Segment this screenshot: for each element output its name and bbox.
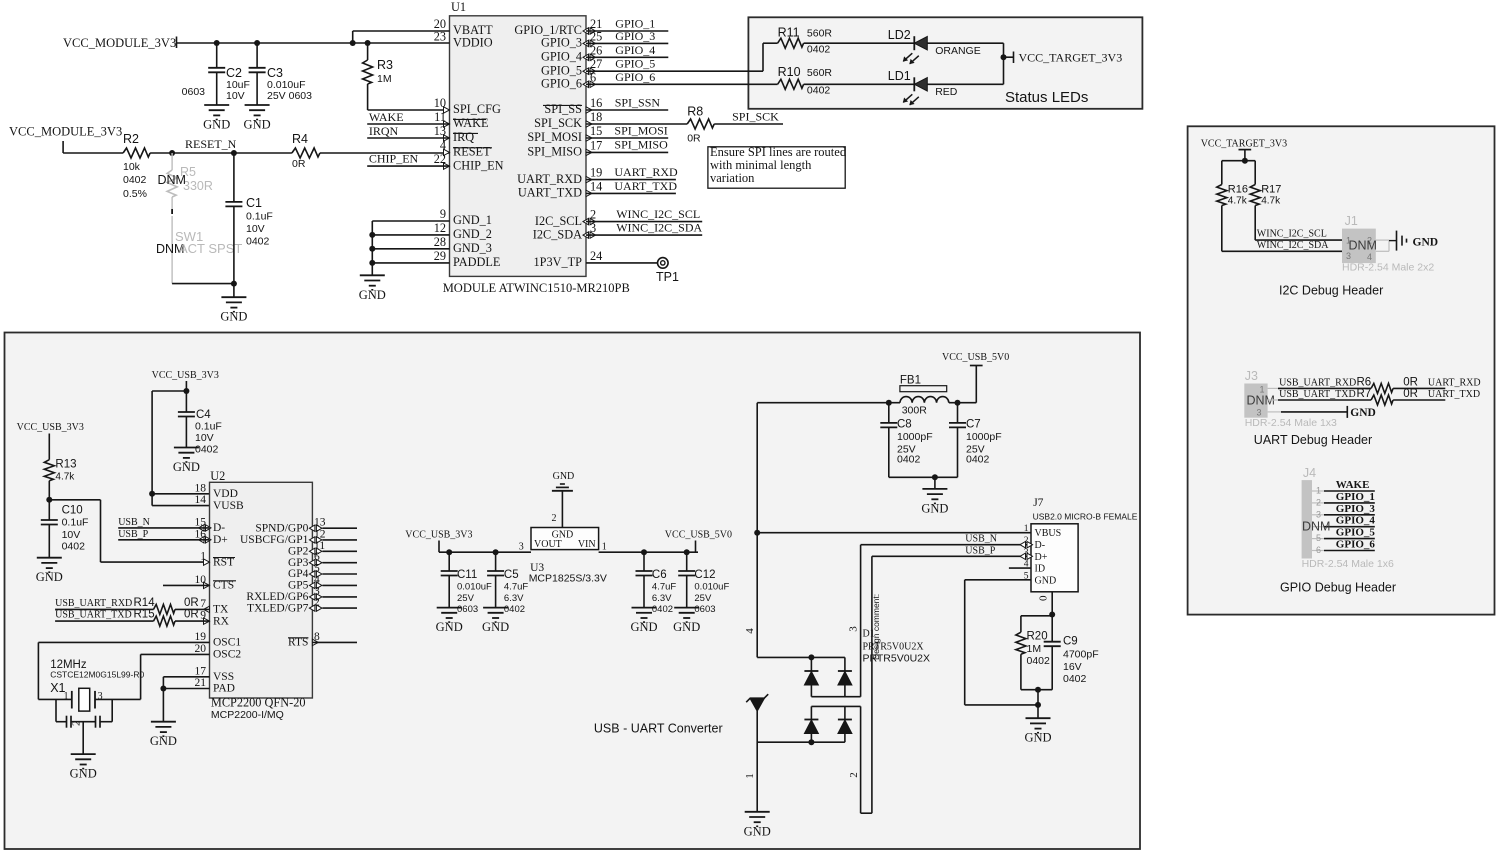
svg-text:GP3: GP3: [288, 557, 309, 569]
svg-text:0.010uF: 0.010uF: [694, 582, 729, 593]
svg-text:SPND/GP0: SPND/GP0: [255, 522, 308, 534]
svg-text:D+: D+: [213, 534, 228, 546]
svg-text:28: 28: [434, 235, 446, 249]
svg-text:3: 3: [1257, 408, 1262, 418]
svg-text:WAKE: WAKE: [369, 110, 404, 124]
svg-text:10V: 10V: [226, 90, 245, 102]
svg-text:0603: 0603: [694, 604, 715, 615]
svg-text:0603: 0603: [457, 604, 478, 615]
svg-text:UART Debug Header: UART Debug Header: [1254, 433, 1372, 447]
svg-text:17: 17: [195, 665, 207, 677]
svg-text:GND: GND: [359, 288, 386, 302]
svg-text:0402: 0402: [1027, 655, 1051, 667]
svg-text:GND: GND: [1350, 407, 1376, 419]
svg-text:4: 4: [1024, 560, 1029, 570]
svg-text:GPIO_4: GPIO_4: [541, 50, 582, 64]
svg-text:GPIO_4: GPIO_4: [615, 43, 655, 57]
svg-text:SPI_MOSI: SPI_MOSI: [527, 130, 582, 144]
svg-text:GPIO_5: GPIO_5: [541, 63, 582, 77]
svg-text:330R: 330R: [183, 179, 213, 193]
svg-text:12: 12: [434, 221, 446, 235]
svg-text:R13: R13: [55, 459, 76, 471]
svg-text:0R: 0R: [1403, 388, 1418, 400]
svg-text:0402: 0402: [504, 604, 525, 615]
svg-text:4700pF: 4700pF: [1063, 649, 1099, 661]
svg-text:14: 14: [195, 494, 207, 506]
svg-text:RED: RED: [935, 86, 958, 98]
svg-text:DNM: DNM: [158, 173, 186, 187]
svg-text:0402: 0402: [62, 541, 86, 553]
svg-text:HDR-2.54 Male 1x6: HDR-2.54 Male 1x6: [1302, 558, 1394, 570]
svg-text:USB_UART_TXD: USB_UART_TXD: [55, 610, 132, 621]
svg-text:LD1: LD1: [888, 69, 911, 83]
svg-text:VCC_TARGET_3V3: VCC_TARGET_3V3: [1201, 139, 1287, 150]
svg-text:5: 5: [1024, 571, 1029, 581]
svg-text:USB_P: USB_P: [118, 529, 148, 540]
svg-text:GND: GND: [150, 734, 177, 748]
svg-text:0603: 0603: [182, 86, 206, 98]
svg-text:GND: GND: [921, 501, 948, 515]
svg-text:3: 3: [848, 626, 860, 632]
svg-text:PADDLE: PADDLE: [453, 255, 500, 269]
svg-text:VCC_USB_5V0: VCC_USB_5V0: [665, 529, 732, 540]
svg-text:DNM: DNM: [1349, 239, 1377, 253]
svg-text:USB_UART_RXD: USB_UART_RXD: [1279, 377, 1356, 388]
svg-text:4.7k: 4.7k: [1261, 196, 1281, 207]
svg-text:IRQN: IRQN: [369, 124, 399, 138]
svg-text:GND: GND: [1413, 236, 1439, 248]
svg-text:WAKE: WAKE: [453, 116, 489, 130]
svg-text:1: 1: [1024, 524, 1029, 534]
svg-text:UART_RXD: UART_RXD: [517, 172, 582, 186]
svg-text:GPIO_3: GPIO_3: [615, 29, 655, 43]
svg-text:GND: GND: [1024, 731, 1051, 745]
svg-text:GND: GND: [244, 118, 271, 132]
svg-text:SPI_SS: SPI_SS: [544, 102, 582, 116]
svg-text:Status LEDs: Status LEDs: [1005, 89, 1088, 106]
svg-text:R2: R2: [123, 132, 139, 146]
svg-text:10V: 10V: [62, 529, 81, 541]
svg-text:4.7k: 4.7k: [1228, 196, 1248, 207]
svg-text:variation: variation: [710, 171, 755, 185]
svg-text:GPIO_3: GPIO_3: [1336, 503, 1376, 515]
svg-text:UART_TXD: UART_TXD: [614, 179, 677, 193]
svg-text:USB_UART_TXD: USB_UART_TXD: [1279, 389, 1356, 400]
svg-text:GPIO_1: GPIO_1: [1336, 491, 1375, 503]
svg-text:0.1uF: 0.1uF: [195, 421, 222, 433]
svg-text:29: 29: [434, 249, 446, 263]
svg-text:MCP1825S/3.3V: MCP1825S/3.3V: [529, 573, 607, 585]
svg-text:6: 6: [1316, 545, 1321, 555]
svg-text:GND_3: GND_3: [453, 241, 492, 255]
svg-text:R15: R15: [134, 609, 155, 621]
svg-text:GPIO_3: GPIO_3: [541, 36, 582, 50]
svg-text:GPIO_4: GPIO_4: [1336, 515, 1376, 527]
svg-text:0.1uF: 0.1uF: [246, 211, 273, 223]
svg-text:SPI_SCK: SPI_SCK: [732, 109, 779, 123]
svg-text:WINC_I2C_SDA: WINC_I2C_SDA: [1257, 240, 1329, 251]
svg-text:VDD: VDD: [213, 488, 238, 500]
svg-text:16: 16: [590, 96, 602, 110]
svg-text:I2C Debug Header: I2C Debug Header: [1279, 284, 1383, 298]
svg-text:VSS: VSS: [213, 671, 234, 683]
svg-text:R7: R7: [1357, 388, 1372, 400]
svg-text:VDDIO: VDDIO: [453, 36, 493, 50]
svg-text:4.7uF: 4.7uF: [504, 582, 528, 593]
svg-text:GND: GND: [630, 620, 657, 634]
svg-text:C11: C11: [457, 569, 477, 581]
svg-text:16V: 16V: [1063, 661, 1082, 673]
svg-text:10k: 10k: [123, 161, 141, 173]
svg-text:MODULE ATWINC1510-MR210PB: MODULE ATWINC1510-MR210PB: [443, 281, 630, 295]
svg-text:J1: J1: [1345, 214, 1358, 228]
svg-text:C1: C1: [246, 196, 262, 210]
svg-text:SPI_CFG: SPI_CFG: [453, 102, 501, 116]
svg-text:PAD: PAD: [213, 683, 235, 695]
svg-text:J4: J4: [1303, 466, 1316, 480]
svg-text:VCC_MODULE_3V3: VCC_MODULE_3V3: [9, 125, 122, 139]
svg-text:1: 1: [744, 773, 756, 779]
svg-text:USB_UART_RXD: USB_UART_RXD: [55, 598, 132, 609]
svg-text:3: 3: [98, 691, 103, 702]
svg-text:19: 19: [195, 631, 207, 643]
svg-text:1M: 1M: [1027, 643, 1042, 655]
svg-text:GND: GND: [173, 460, 200, 474]
svg-text:J3: J3: [1245, 369, 1258, 383]
svg-text:C3: C3: [267, 66, 283, 80]
svg-text:560R: 560R: [807, 67, 833, 79]
svg-text:4: 4: [744, 628, 756, 634]
svg-text:UART_RXD: UART_RXD: [1428, 377, 1481, 388]
svg-text:OSC1: OSC1: [213, 637, 241, 649]
svg-text:18: 18: [590, 110, 602, 124]
svg-text:ORANGE: ORANGE: [935, 45, 981, 57]
svg-text:RESET_N: RESET_N: [185, 137, 237, 151]
svg-text:SPI_MOSI: SPI_MOSI: [614, 123, 667, 137]
svg-text:25V 0603: 25V 0603: [267, 90, 312, 102]
svg-text:I2C_SCL: I2C_SCL: [535, 214, 582, 228]
svg-text:C5: C5: [504, 569, 519, 581]
svg-text:DNM: DNM: [1302, 520, 1330, 534]
svg-text:RXLED/GP6: RXLED/GP6: [246, 591, 308, 603]
svg-text:560R: 560R: [807, 27, 833, 39]
svg-text:GPIO_5: GPIO_5: [1336, 527, 1376, 539]
svg-text:HDR-2.54 Male 1x3: HDR-2.54 Male 1x3: [1245, 417, 1337, 429]
svg-text:0.1uF: 0.1uF: [62, 517, 89, 529]
svg-text:1P3V_TP: 1P3V_TP: [533, 255, 582, 269]
svg-text:J7: J7: [1033, 497, 1043, 509]
svg-text:HDR-2.54 Male 2x2: HDR-2.54 Male 2x2: [1342, 262, 1434, 274]
svg-text:0R: 0R: [184, 597, 199, 609]
svg-text:MCP2200 QFN-20: MCP2200 QFN-20: [211, 695, 306, 709]
svg-text:R4: R4: [292, 132, 308, 146]
svg-text:VIN: VIN: [578, 539, 596, 550]
svg-text:14: 14: [590, 179, 602, 193]
svg-text:USBCFG/GP1: USBCFG/GP1: [240, 534, 309, 546]
svg-text:GND: GND: [673, 620, 700, 634]
svg-text:1: 1: [602, 542, 607, 553]
svg-text:6.3V: 6.3V: [652, 593, 672, 604]
svg-text:R16: R16: [1228, 184, 1248, 196]
svg-text:GP5: GP5: [288, 580, 309, 592]
svg-text:23: 23: [434, 29, 446, 43]
svg-text:USB_P: USB_P: [965, 545, 995, 556]
svg-text:1000pF: 1000pF: [897, 431, 933, 443]
svg-text:2: 2: [552, 513, 557, 524]
svg-text:USB_N: USB_N: [118, 517, 150, 528]
svg-text:VCC_USB_5V0: VCC_USB_5V0: [942, 352, 1009, 363]
svg-text:GND: GND: [436, 620, 463, 634]
svg-text:with minimal length: with minimal length: [710, 158, 812, 172]
svg-text:0R: 0R: [1403, 376, 1418, 388]
svg-text:17: 17: [590, 138, 602, 152]
svg-text:ID: ID: [1035, 564, 1046, 575]
svg-text:GND_2: GND_2: [453, 227, 492, 241]
svg-text:WAKE: WAKE: [1336, 479, 1370, 491]
svg-text:FB1: FB1: [900, 375, 921, 387]
svg-text:GND: GND: [482, 620, 509, 634]
svg-text:SPI_SCK: SPI_SCK: [534, 116, 582, 130]
svg-text:R10: R10: [778, 65, 801, 79]
svg-text:IRQ: IRQ: [453, 130, 474, 144]
svg-text:WINC_I2C_SCL: WINC_I2C_SCL: [616, 207, 700, 221]
svg-text:U1: U1: [451, 0, 466, 14]
svg-text:0402: 0402: [195, 444, 219, 456]
svg-text:SPI_SSN: SPI_SSN: [615, 95, 661, 109]
svg-text:VCC_TARGET_3V3: VCC_TARGET_3V3: [1019, 51, 1123, 65]
svg-text:18: 18: [195, 482, 207, 494]
svg-text:4.7uF: 4.7uF: [652, 582, 676, 593]
svg-text:TX: TX: [213, 604, 229, 616]
svg-text:D-: D-: [1035, 540, 1046, 551]
svg-text:C4: C4: [196, 409, 211, 421]
svg-text:TXLED/GP7: TXLED/GP7: [247, 602, 309, 614]
svg-text:GPIO_6: GPIO_6: [541, 77, 582, 91]
svg-text:CHIP_EN: CHIP_EN: [453, 158, 504, 172]
svg-text:RST: RST: [213, 556, 234, 568]
svg-text:1M: 1M: [377, 73, 392, 85]
svg-text:C2: C2: [226, 66, 242, 80]
svg-text:3: 3: [1316, 509, 1321, 519]
svg-text:SPI_MISO: SPI_MISO: [614, 138, 668, 152]
svg-text:15: 15: [590, 124, 602, 138]
svg-text:24: 24: [590, 249, 602, 263]
svg-text:GP4: GP4: [288, 568, 309, 580]
svg-text:R8: R8: [687, 104, 703, 118]
svg-text:0R: 0R: [292, 158, 306, 170]
svg-text:GND: GND: [220, 310, 247, 324]
svg-text:GND: GND: [744, 824, 771, 838]
svg-text:LD2: LD2: [888, 28, 911, 42]
svg-text:USB_N: USB_N: [965, 534, 997, 545]
svg-text:10V: 10V: [195, 432, 214, 444]
svg-text:GND: GND: [553, 471, 575, 482]
svg-text:GND: GND: [36, 570, 63, 584]
svg-text:2: 2: [848, 772, 860, 778]
svg-text:0.010uF: 0.010uF: [457, 582, 492, 593]
svg-text:6.3V: 6.3V: [504, 593, 524, 604]
svg-text:VCC_USB_3V3: VCC_USB_3V3: [17, 422, 84, 433]
svg-text:25V: 25V: [457, 593, 475, 604]
svg-text:3: 3: [1346, 251, 1351, 261]
svg-text:VCC_MODULE_3V3: VCC_MODULE_3V3: [63, 36, 176, 50]
svg-text:USB2.0 MICRO-B FEMALE: USB2.0 MICRO-B FEMALE: [1033, 512, 1138, 522]
svg-text:2: 2: [1316, 497, 1321, 507]
svg-text:1000pF: 1000pF: [966, 431, 1002, 443]
svg-text:C6: C6: [652, 569, 667, 581]
svg-text:ACT SPST: ACT SPST: [179, 241, 242, 256]
svg-text:TP1: TP1: [656, 270, 679, 284]
svg-text:0402: 0402: [246, 236, 270, 248]
svg-text:R17: R17: [1261, 184, 1281, 196]
svg-text:UART_RXD: UART_RXD: [614, 165, 678, 179]
svg-text:USB - UART Converter: USB - UART Converter: [594, 722, 723, 736]
svg-text:WINC_I2C_SDA: WINC_I2C_SDA: [616, 221, 702, 235]
svg-text:CTS: CTS: [213, 580, 234, 592]
svg-text:I2C_SDA: I2C_SDA: [533, 227, 582, 241]
svg-text:RTS: RTS: [288, 637, 308, 649]
svg-text:0402: 0402: [1063, 673, 1087, 685]
svg-text:0402: 0402: [652, 604, 673, 615]
svg-text:C10: C10: [62, 504, 83, 516]
svg-text:SPI_MISO: SPI_MISO: [527, 145, 582, 159]
svg-text:UART_TXD: UART_TXD: [1428, 389, 1480, 400]
svg-text:R6: R6: [1357, 376, 1372, 388]
svg-text:R20: R20: [1027, 631, 1048, 643]
svg-text:GND: GND: [70, 767, 97, 781]
svg-text:U2: U2: [210, 469, 225, 483]
svg-text:C7: C7: [966, 419, 981, 431]
svg-text:1: 1: [1316, 486, 1321, 496]
svg-text:GPIO_6: GPIO_6: [615, 70, 655, 84]
svg-text:20: 20: [195, 643, 207, 655]
svg-text:C8: C8: [897, 419, 912, 431]
svg-text:C9: C9: [1063, 636, 1078, 648]
svg-text:D-: D-: [213, 522, 225, 534]
svg-text:21: 21: [195, 677, 207, 689]
svg-text:0R: 0R: [687, 133, 701, 145]
svg-text:GND: GND: [1035, 575, 1057, 586]
svg-text:RX: RX: [213, 615, 230, 627]
svg-text:1: 1: [64, 691, 69, 702]
svg-text:VOUT: VOUT: [534, 539, 562, 550]
svg-text:Design comment:: Design comment:: [871, 594, 881, 660]
svg-text:CHIP_EN: CHIP_EN: [369, 151, 419, 165]
svg-text:9: 9: [440, 207, 446, 221]
svg-text:5: 5: [1316, 533, 1321, 543]
svg-text:VUSB: VUSB: [213, 500, 244, 512]
svg-text:300R: 300R: [902, 405, 928, 417]
svg-text:10V: 10V: [246, 223, 265, 235]
svg-text:0R: 0R: [184, 609, 199, 621]
svg-text:0.5%: 0.5%: [123, 188, 147, 200]
svg-text:C12: C12: [694, 569, 715, 581]
svg-text:UART_TXD: UART_TXD: [518, 186, 582, 200]
svg-text:R3: R3: [377, 58, 393, 72]
svg-text:0: 0: [1038, 595, 1050, 601]
svg-text:MCP2200-I/MQ: MCP2200-I/MQ: [211, 709, 284, 721]
svg-text:0402: 0402: [807, 44, 831, 56]
svg-text:0402: 0402: [966, 454, 990, 466]
svg-text:GND: GND: [203, 118, 230, 132]
svg-text:GPIO Debug Header: GPIO Debug Header: [1280, 581, 1396, 595]
svg-text:GPIO_6: GPIO_6: [1336, 539, 1376, 551]
svg-text:0402: 0402: [897, 454, 921, 466]
svg-text:GND_1: GND_1: [453, 213, 492, 227]
svg-text:GP2: GP2: [288, 546, 309, 558]
svg-text:VBUS: VBUS: [1035, 528, 1062, 539]
svg-text:0402: 0402: [807, 85, 831, 97]
svg-text:R14: R14: [134, 597, 156, 609]
svg-text:RESET: RESET: [453, 145, 491, 159]
svg-text:2: 2: [71, 721, 83, 727]
svg-text:25V: 25V: [694, 593, 712, 604]
svg-text:3: 3: [519, 542, 524, 553]
svg-text:4: 4: [1367, 252, 1372, 262]
svg-text:19: 19: [590, 166, 602, 180]
svg-text:VCC_USB_3V3: VCC_USB_3V3: [152, 370, 219, 381]
svg-text:CSTCE12M0G15L99-R0: CSTCE12M0G15L99-R0: [50, 670, 144, 680]
svg-text:GPIO_5: GPIO_5: [615, 57, 655, 71]
svg-text:4.7k: 4.7k: [55, 472, 75, 483]
svg-text:0402: 0402: [123, 174, 147, 186]
svg-text:OSC2: OSC2: [213, 649, 241, 661]
svg-text:Ensure SPI lines are routed: Ensure SPI lines are routed: [710, 145, 847, 159]
svg-text:VCC_USB_3V3: VCC_USB_3V3: [405, 529, 472, 540]
svg-text:WINC_I2C_SCL: WINC_I2C_SCL: [1257, 228, 1327, 239]
svg-text:D+: D+: [1035, 552, 1048, 563]
